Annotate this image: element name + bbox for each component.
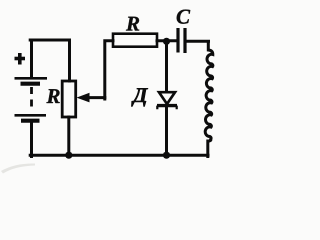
diode D cathode bar <box>157 104 177 107</box>
label R (potentiometer) <box>46 89 59 103</box>
capacitor C left plate <box>176 28 179 53</box>
label R (resistor) <box>126 17 139 31</box>
diode D bar end ticks <box>157 106 176 110</box>
battery B1 cell1 short plate <box>21 82 41 86</box>
wire: top-left rail <box>30 39 69 42</box>
battery B1 cell2 short plate <box>21 119 40 123</box>
wire: battery top lead up to top-left rail <box>30 40 33 78</box>
diode D triangle <box>159 92 175 104</box>
battery B1 cell2 long plate <box>15 114 47 117</box>
wire: resistor right lead <box>157 39 177 42</box>
node: junction potentiometer/bottom rail <box>65 152 72 159</box>
label C (capacitor) <box>177 10 190 24</box>
node: junction diode/bottom rail <box>163 152 170 159</box>
wire: diode top lead <box>165 41 168 92</box>
node: junction resistor/diode/capacitor <box>163 38 170 45</box>
capacitor C right plate <box>183 28 186 53</box>
label D (diode) <box>131 88 148 106</box>
wire: coil bottom lead <box>206 141 209 157</box>
potentiometer R body <box>62 81 75 117</box>
wire: bottom rail <box>30 154 208 157</box>
battery + sign <box>15 53 26 65</box>
wire: wiper line to middle riser <box>88 96 105 99</box>
wire: capacitor right lead to coil top <box>186 40 209 43</box>
wire: diode bottom lead <box>165 107 168 155</box>
battery dashed link <box>30 87 33 112</box>
battery B1 cell1 long plate <box>15 77 48 80</box>
wire: middle riser up to resistor branch <box>105 41 113 99</box>
wire: down to potentiometer top <box>68 40 71 81</box>
inductor L coil <box>205 41 213 141</box>
wire: battery bottom lead to bottom rail <box>30 123 33 157</box>
potentiometer wiper arrowhead <box>77 93 90 103</box>
wire: potentiometer bottom lead <box>67 117 70 155</box>
resistor R body <box>113 34 157 47</box>
